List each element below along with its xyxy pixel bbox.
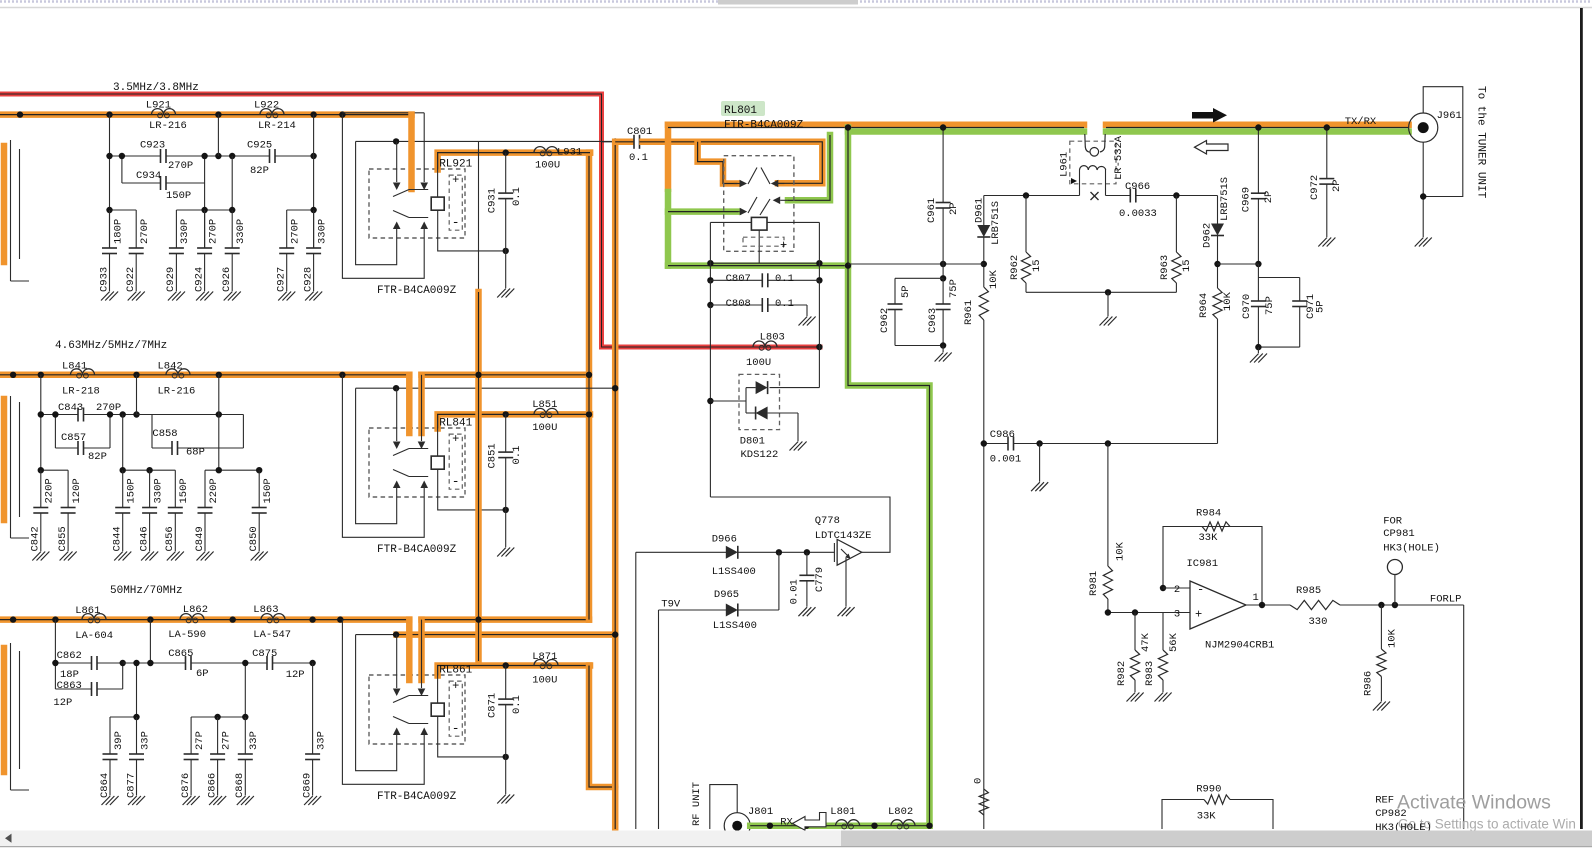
svg-text:2P: 2P [1263,191,1275,204]
svg-text:TX/RX: TX/RX [1345,116,1377,128]
svg-text:2: 2 [1174,584,1180,596]
svg-text:10K: 10K [1115,541,1127,561]
svg-text:FTR-B4CA009Z: FTR-B4CA009Z [724,120,804,132]
svg-text:-: - [1197,583,1204,597]
svg-text:C858: C858 [152,428,177,440]
svg-text:33K: 33K [1199,532,1219,544]
svg-text:R963: R963 [1159,255,1171,280]
svg-text:5P: 5P [1315,300,1327,313]
svg-text:15: 15 [1031,259,1043,272]
svg-text:R990: R990 [1196,783,1221,795]
svg-text:R964: R964 [1198,293,1210,318]
svg-text:L1SS400: L1SS400 [712,566,756,578]
svg-text:330P: 330P [179,219,191,244]
svg-text:+: + [1195,608,1202,622]
svg-text:C856: C856 [164,526,176,551]
svg-text:L931: L931 [557,147,582,159]
svg-text:220P: 220P [44,478,56,503]
svg-text:FOR: FOR [1383,516,1403,528]
svg-text:R981: R981 [1088,571,1100,596]
svg-text:Activate Windows: Activate Windows [1397,792,1551,814]
svg-text:330P: 330P [152,478,164,503]
svg-text:+: + [780,239,787,253]
svg-text:RL801: RL801 [724,105,757,117]
svg-text:330P: 330P [316,219,328,244]
svg-text:C928: C928 [302,267,314,292]
svg-text:LR-218: LR-218 [62,386,100,398]
svg-text:82P: 82P [250,165,269,177]
svg-text:L851: L851 [532,399,557,411]
svg-text:LA-547: LA-547 [253,629,291,641]
svg-text:R984: R984 [1196,508,1221,520]
svg-text:0.1: 0.1 [775,273,794,285]
svg-text:180P: 180P [112,219,124,244]
svg-text:150P: 150P [166,190,191,202]
svg-text:33K: 33K [1197,810,1217,822]
svg-text:C934: C934 [136,170,161,182]
svg-text:L803: L803 [760,332,785,344]
svg-text:0.1: 0.1 [511,446,523,465]
svg-text:-: - [452,215,460,230]
svg-text:J801: J801 [748,806,773,818]
svg-text:L841: L841 [62,361,87,373]
svg-text:CP981: CP981 [1383,528,1415,540]
svg-text:C801: C801 [627,126,652,138]
svg-text:FTR-B4CA009Z: FTR-B4CA009Z [377,544,457,556]
svg-text:10K: 10K [1386,628,1398,648]
svg-text:R985: R985 [1296,585,1321,597]
svg-text:C865: C865 [168,648,193,660]
svg-text:NJM2904CRB1: NJM2904CRB1 [1205,640,1274,652]
svg-text:C868: C868 [234,773,246,798]
svg-text:2P: 2P [948,202,960,215]
svg-text:LA-604: LA-604 [75,630,113,642]
svg-text:150P: 150P [178,478,190,503]
svg-text:82P: 82P [88,451,107,463]
svg-text:C926: C926 [221,267,233,292]
svg-text:330P: 330P [235,219,247,244]
svg-text:C851: C851 [487,443,499,468]
svg-text:RL841: RL841 [439,418,472,430]
svg-text:6P: 6P [196,668,209,680]
svg-text:L801: L801 [830,806,855,818]
svg-text:75P: 75P [1264,296,1276,315]
svg-text:D962: D962 [1202,223,1214,248]
svg-text:0.0033: 0.0033 [1119,208,1157,220]
svg-text:LR-214: LR-214 [258,120,296,132]
svg-text:C855: C855 [57,526,69,551]
svg-text:15: 15 [1181,259,1193,272]
svg-text:C972: C972 [1309,175,1321,200]
svg-text:IC981: IC981 [1187,558,1219,570]
svg-text:27P: 27P [194,731,206,750]
svg-text:1: 1 [1253,592,1259,604]
svg-text:D801: D801 [740,436,765,448]
svg-text:-: - [452,721,460,736]
svg-text:2P: 2P [1331,179,1343,192]
svg-text:RL861: RL861 [439,665,472,677]
svg-text:330: 330 [1309,616,1328,628]
svg-text:L842: L842 [158,361,183,373]
svg-text:C807: C807 [726,273,751,285]
svg-text:C962: C962 [879,308,891,333]
svg-text:RF UNIT: RF UNIT [691,782,703,826]
svg-text:To the TUNER UNIT: To the TUNER UNIT [1475,86,1487,199]
svg-text:L1SS400: L1SS400 [713,620,757,632]
svg-text:L921: L921 [146,100,171,112]
svg-text:FORLP: FORLP [1430,594,1462,606]
svg-text:Q778: Q778 [815,515,840,527]
svg-text:5P: 5P [900,285,912,298]
svg-text:C843: C843 [58,402,83,414]
svg-text:C869: C869 [301,773,313,798]
svg-text:C929: C929 [165,267,177,292]
svg-text:REF: REF [1375,794,1394,806]
svg-text:0: 0 [973,778,985,784]
svg-text:3: 3 [1174,609,1180,621]
svg-text:L871: L871 [532,651,557,663]
svg-text:10K: 10K [1222,291,1234,311]
svg-text:R962: R962 [1009,255,1021,280]
svg-text:270P: 270P [290,219,302,244]
svg-text:LRB751S: LRB751S [1219,177,1231,221]
svg-text:56K: 56K [1168,632,1180,652]
svg-text:CP982: CP982 [1375,808,1407,820]
svg-text:100U: 100U [535,160,560,172]
svg-text:0.01: 0.01 [789,579,801,604]
svg-text:C844: C844 [112,526,124,551]
svg-text:C849: C849 [194,526,206,551]
svg-text:RL921: RL921 [439,159,472,171]
svg-text:C850: C850 [248,526,260,551]
svg-text:33P: 33P [248,731,260,750]
svg-text:0.1: 0.1 [511,695,523,714]
svg-text:270P: 270P [139,219,151,244]
svg-text:R983: R983 [1144,661,1156,686]
svg-text:C877: C877 [125,773,137,798]
svg-text:LR-216: LR-216 [158,386,196,398]
svg-text:100U: 100U [746,357,771,369]
svg-text:C857: C857 [61,432,86,444]
svg-text:100U: 100U [532,422,557,434]
svg-text:L961: L961 [1059,152,1071,177]
svg-text:L863: L863 [253,604,278,616]
svg-text:12P: 12P [286,669,305,681]
svg-text:150P: 150P [262,478,274,503]
svg-text:100U: 100U [532,675,557,687]
svg-text:L922: L922 [254,100,279,112]
svg-text:C846: C846 [138,526,150,551]
svg-text:C927: C927 [276,267,288,292]
svg-text:68P: 68P [186,447,205,459]
svg-text:0.001: 0.001 [990,454,1022,466]
svg-text:C876: C876 [180,773,192,798]
svg-text:0.1: 0.1 [629,152,648,164]
svg-text:C961: C961 [926,198,938,223]
svg-text:120P: 120P [71,478,83,503]
svg-text:150P: 150P [126,478,138,503]
svg-text:C863: C863 [57,680,82,692]
svg-text:12P: 12P [53,697,72,709]
svg-text:C966: C966 [1125,181,1150,193]
svg-text:-: - [452,474,460,489]
svg-text:HK3(HOLE): HK3(HOLE) [1383,543,1440,555]
svg-text:4.63MHz/5MHz/7MHz: 4.63MHz/5MHz/7MHz [55,340,167,352]
svg-text:C875: C875 [252,648,277,660]
svg-text:220P: 220P [208,478,220,503]
svg-text:+: + [452,173,459,187]
svg-text:C923: C923 [140,140,165,152]
svg-text:C808: C808 [726,298,751,310]
svg-text:LA-590: LA-590 [168,629,206,641]
svg-text:C986: C986 [990,429,1015,441]
svg-text:LR-216: LR-216 [149,120,187,132]
svg-text:C969: C969 [1241,187,1253,212]
svg-text:KDS122: KDS122 [741,449,779,461]
svg-text:75P: 75P [948,279,960,298]
svg-text:270P: 270P [168,160,193,172]
svg-text:R982: R982 [1116,661,1128,686]
svg-text:C862: C862 [57,650,82,662]
svg-text:39P: 39P [113,731,125,750]
svg-text:C922: C922 [125,267,137,292]
svg-text:D965: D965 [714,589,739,601]
svg-text:C779: C779 [814,567,826,592]
svg-text:R961: R961 [963,300,975,325]
svg-text:C931: C931 [487,188,499,213]
svg-text:+: + [452,679,459,693]
svg-text:L802: L802 [888,806,913,818]
svg-text:R986: R986 [1362,671,1374,696]
svg-text:C842: C842 [30,526,42,551]
svg-text:47K: 47K [1140,632,1152,652]
svg-text:+: + [452,432,459,446]
svg-text:33P: 33P [315,731,327,750]
svg-text:270P: 270P [207,219,219,244]
svg-text:C871: C871 [487,693,499,718]
svg-text:0.1: 0.1 [511,187,523,206]
svg-text:L861: L861 [75,605,100,617]
svg-text:C924: C924 [193,267,205,292]
svg-text:C925: C925 [247,140,272,152]
svg-text:FTR-B4CA009Z: FTR-B4CA009Z [377,285,457,297]
svg-text:C866: C866 [206,773,218,798]
svg-text:LDTC143ZE: LDTC143ZE [815,530,872,542]
svg-text:LR-532A: LR-532A [1113,135,1125,180]
svg-text:FTR-B4CA009Z: FTR-B4CA009Z [377,791,457,803]
svg-text:C963: C963 [927,308,939,333]
svg-text:RX: RX [780,817,793,829]
svg-text:C933: C933 [98,267,110,292]
svg-text:50MHz/70MHz: 50MHz/70MHz [110,585,183,597]
svg-text:D961: D961 [974,198,986,223]
svg-text:33P: 33P [139,731,151,750]
svg-text:C864: C864 [99,773,111,798]
svg-text:T9V: T9V [661,599,681,611]
svg-text:J961: J961 [1437,110,1462,122]
svg-text:10K: 10K [988,269,1000,289]
svg-text:L862: L862 [183,604,208,616]
svg-text:D966: D966 [712,534,737,546]
svg-text:27P: 27P [220,731,232,750]
svg-text:C970: C970 [1241,294,1253,319]
svg-text:LRB751S: LRB751S [990,201,1002,245]
svg-text:0.1: 0.1 [775,298,794,310]
